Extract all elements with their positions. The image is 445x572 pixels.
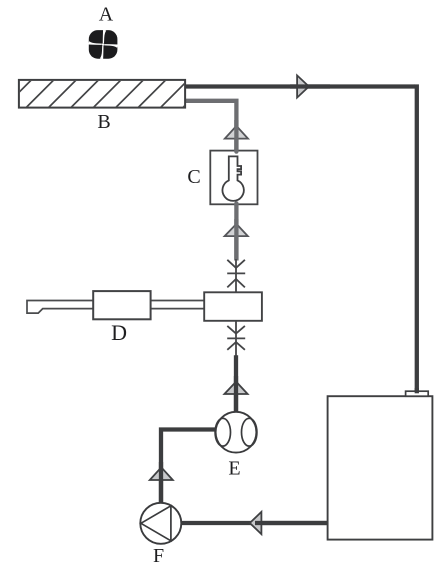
- svg-text:C: C: [187, 166, 200, 188]
- label F: [153, 545, 164, 567]
- svg-text:D: D: [111, 320, 127, 345]
- wire: top supply line from B to tank (dark): [184, 84, 417, 392]
- heater element icon inside C: [222, 156, 243, 200]
- wire: gray line from B down to C: [185, 101, 236, 152]
- label A: [99, 4, 114, 26]
- arrow left on return line: [250, 512, 262, 534]
- box D: [93, 291, 150, 319]
- arrow up on gray line B-C: [225, 126, 248, 139]
- label B: [97, 111, 110, 133]
- wire: supply line tip into cap: [415, 388, 419, 393]
- gray line nub at C top: [234, 150, 238, 152]
- gray line nub at C bottom: [234, 203, 238, 205]
- arrow up on line corner-F: [150, 467, 173, 480]
- tank: [328, 396, 433, 539]
- wire: gray overlay through arrow B-C: [234, 120, 238, 151]
- label C: [187, 166, 200, 188]
- svg-text:E: E: [228, 457, 240, 479]
- wire: dark return line F to tank: [178, 521, 329, 525]
- probe tube D right lines: [151, 301, 205, 309]
- wire: dark overlay through arrow corner-F: [159, 462, 163, 504]
- arrow up on line to E: [224, 382, 247, 394]
- label D: [111, 320, 127, 345]
- pump F: [140, 503, 181, 544]
- heater C box: [210, 151, 257, 205]
- heat exchanger B (hatched): [4, 80, 211, 108]
- label E: [228, 457, 240, 479]
- wire: thin connector through upper coupling: [235, 259, 237, 292]
- svg-text:A: A: [99, 4, 114, 26]
- wire: gray line C to coupling: [234, 203, 238, 260]
- svg-text:F: F: [153, 545, 164, 567]
- upper coupling symbol: [227, 260, 245, 288]
- sample box (right of D): [204, 292, 262, 321]
- wire: dark overlay through left arrow: [255, 521, 329, 525]
- svg-text:B: B: [97, 111, 110, 133]
- wire: dark line coupling to pump E: [234, 355, 238, 413]
- probe tube D left lines: [27, 301, 93, 314]
- pump E: [215, 412, 257, 453]
- wire: dark line pump E left to corner and down to pump F: [161, 430, 218, 505]
- wire: dark overlay through arrow to E: [234, 376, 238, 413]
- wire: gray overlay through arrow C-coupling: [234, 219, 238, 261]
- wire: dark overlay through right arrow: [290, 84, 330, 88]
- fan A: [88, 30, 118, 60]
- wire: thin connector through lower coupling: [235, 321, 237, 356]
- tank filler cap: [406, 391, 429, 396]
- lower coupling symbol: [227, 326, 245, 350]
- arrow up on gray line C-coupling: [225, 224, 248, 236]
- arrow right on top supply line: [297, 75, 309, 97]
